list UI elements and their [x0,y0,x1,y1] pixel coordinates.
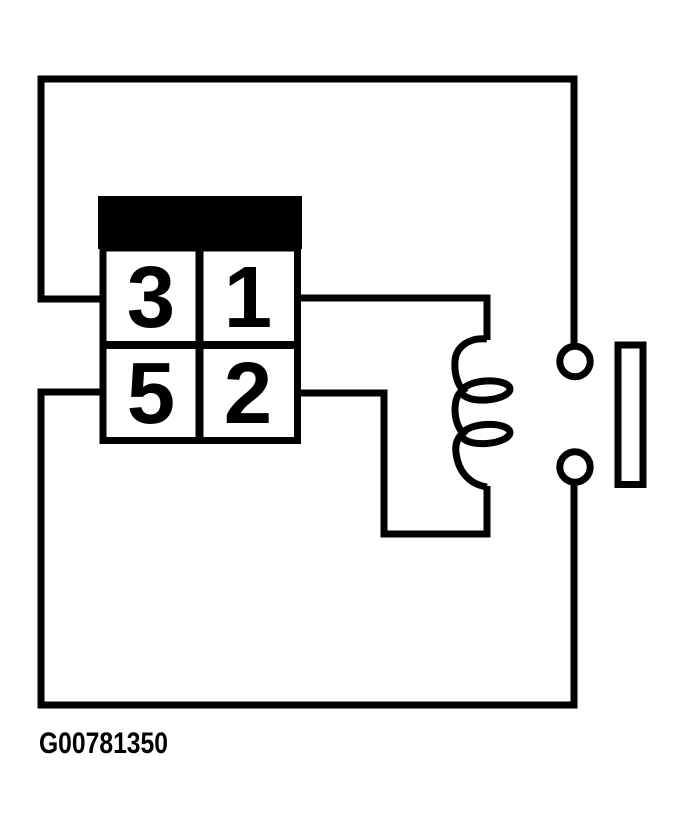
lower contact terminal circle [560,452,590,482]
upper contact terminal circle [560,346,590,376]
svg-text:2: 2 [224,345,272,442]
svg-text:1: 1 [224,249,272,346]
connector grid horizontal divider [103,341,298,349]
wire: pin 1 to coil top [297,298,487,340]
connector body outline [103,248,298,441]
svg-text:3: 3 [127,249,175,346]
connector header (solid black bar) [98,196,302,249]
connector grid vertical divider [196,248,204,441]
coil L1 (relay coil, three left arcs) [455,339,487,487]
wire: pin 2 to coil bottom [297,393,487,534]
relay contact bar [618,345,643,485]
wire: pin 3 branch, left side and top of outer loop to upper contact terminal [41,79,574,346]
coil L1 crossover loop lower [461,423,510,445]
coil L1 crossover loop upper [461,379,510,401]
wire: pin 5 branch, lower-left and bottom of outer loop to lower contact terminal [41,392,574,705]
svg-text:G00781350: G00781350 [39,726,168,759]
svg-text:5: 5 [127,345,175,442]
